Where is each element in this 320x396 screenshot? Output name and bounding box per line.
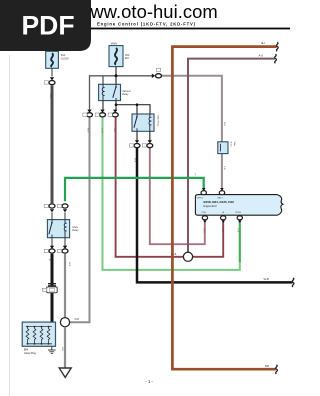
svg-text:G-R: G-R	[236, 229, 238, 233]
svg-text:W-B: W-B	[68, 262, 70, 267]
chassis ground	[59, 368, 71, 377]
wire: green stub at ECU VPRG	[239, 220, 241, 262]
svg-text:4H: 4H	[261, 41, 265, 45]
junction dots	[115, 103, 118, 106]
svg-text:GLOW: GLOW	[61, 57, 69, 60]
connector ovals top	[49, 204, 55, 208]
svg-text:BATT: BATT	[218, 196, 224, 199]
ECU bottom arrows	[203, 220, 207, 223]
relay R3	[47, 220, 69, 238]
svg-text:PDF: PDF	[22, 11, 75, 41]
svg-text:Glow Plug: Glow Plug	[24, 351, 36, 355]
wire: brown 4H/BR (right breaks, full height)	[172, 47, 276, 370]
wire: mauve A-S (right edge break down to splice J2)	[188, 59, 275, 252]
wire: mauve (relay R2 pin to ECU pin PRG)	[150, 148, 205, 244]
ECU bottom ovals	[202, 216, 207, 220]
svg-text:B158, B64, D125, D42: B158, B64, D125, D42	[204, 200, 235, 204]
svg-text:Engine ECU: Engine ECU	[204, 205, 217, 208]
break symbol bottom brown	[276, 365, 278, 374]
inline connector ticks on glow wire	[48, 283, 56, 284]
pin label boxes	[129, 144, 133, 147]
connector arrow right	[152, 74, 156, 78]
wire: glow feed black	[51, 254, 54, 327]
wire: gray ground return (connector A x90 down to splice J1)	[69, 118, 90, 323]
faint page margin line	[9, 55, 11, 396]
noise filter	[218, 142, 228, 154]
svg-text:EDU Relay: EDU Relay	[157, 116, 159, 128]
tag left of junction box	[42, 288, 46, 291]
glow plug assembly	[22, 322, 55, 346]
wire: splice J1 to ground	[64, 327, 66, 368]
pin label boxes	[44, 204, 48, 207]
svg-text:EFI: EFI	[125, 57, 129, 60]
svg-text:A-B: A-B	[173, 253, 177, 256]
header rule	[78, 28, 290, 30]
ground under glow plug	[48, 346, 56, 353]
arrows	[50, 246, 54, 249]
arrows below ovals	[50, 209, 54, 212]
wire: branch to relay R1 coil	[102, 76, 104, 85]
inline junction box	[47, 287, 58, 293]
svg-text:R-W: R-W	[202, 229, 204, 233]
svg-text:Relay: Relay	[72, 229, 79, 232]
svg-text:W-B: W-B	[264, 277, 270, 281]
svg-text:W-B: W-B	[133, 158, 135, 163]
svg-text:www.oto-hui.com: www.oto-hui.com	[76, 1, 218, 22]
break symbol mauve A-S	[275, 54, 277, 63]
wire: branch bus to relay R2	[116, 105, 150, 114]
connector arrow	[50, 77, 54, 80]
svg-text:W-B: W-B	[75, 319, 80, 321]
svg-text:Filter: Filter	[233, 142, 236, 147]
wire: stub fuse F1 to connector	[51, 68, 53, 76]
svg-text:A-S: A-S	[259, 53, 264, 57]
connector oval (52,82.3)	[49, 81, 55, 85]
svg-text:B-R: B-R	[223, 122, 225, 126]
op-amp ECU box	[195, 195, 283, 216]
ECU top ovals	[201, 191, 206, 195]
wire: green control (relay R3 coil to ECU top pin)	[65, 178, 204, 201]
svg-text:VPRG: VPRG	[235, 212, 241, 214]
wire: R1 pins down	[102, 101, 104, 111]
junction dot	[115, 74, 118, 77]
svg-text:5-B: 5-B	[223, 166, 225, 170]
svg-text:W-B: W-B	[86, 128, 88, 133]
pin label box	[156, 68, 160, 71]
connector ovals row y114.6	[87, 113, 93, 117]
svg-text:Noise: Noise	[230, 142, 232, 148]
svg-text:Relay: Relay	[122, 93, 129, 96]
svg-text:MAIN: MAIN	[111, 42, 117, 45]
svg-text:BR: BR	[265, 364, 269, 368]
svg-text:R-B: R-B	[113, 128, 115, 132]
stubs below relay	[51, 238, 53, 248]
break symbol black W-B	[292, 278, 294, 287]
connector arrows	[135, 140, 139, 143]
pin label boxes	[83, 113, 87, 116]
splice J1	[60, 318, 69, 327]
wire: light green (connector B x103 to ECU pin VPRG)	[103, 118, 240, 270]
svg-text:PRG: PRG	[202, 212, 207, 214]
wire: relay R3 coil to splice	[64, 254, 66, 318]
svg-text:W-B: W-B	[49, 94, 51, 99]
splice J2	[183, 252, 192, 261]
wire: taupe BATT (connector D to ECU top pin BATT)	[162, 76, 222, 191]
svg-text:Engine Control (1KD-FTV, 2KD-F: Engine Control (1KD-FTV, 2KD-FTV)	[97, 22, 196, 27]
relay R2	[132, 114, 154, 131]
PDF badge	[0, 0, 91, 51]
fuse F1 GLOW	[46, 51, 59, 68]
svg-text:W-B: W-B	[61, 347, 63, 352]
pin label box	[44, 81, 48, 84]
ECU top connector arrows	[202, 188, 206, 191]
wire: thick dark gray feed	[51, 85, 54, 203]
wire: stub fuse F2 down	[115, 67, 117, 85]
fuse F2 MAIN	[109, 46, 123, 67]
break symbol top brown	[276, 42, 278, 51]
svg-text:- 1 -: - 1 -	[146, 379, 154, 384]
wire: bus y=75.8	[90, 76, 153, 111]
stubs into relay	[51, 212, 53, 219]
wire: R2 pins down	[136, 131, 138, 141]
relay R1	[99, 84, 121, 100]
connector ovals row y145.5	[134, 144, 140, 148]
connector oval D (158.5,75.8)	[156, 74, 162, 78]
wire: dark red (connector C x115.6 to ECU pin +B)	[116, 118, 224, 257]
connector arrows above row y114.6	[87, 110, 91, 113]
pin label boxes	[44, 249, 48, 252]
connector ovals bottom	[49, 249, 55, 253]
wire: black W-B (relay R2 pin to right edge break)	[137, 148, 293, 283]
svg-text:OPRG: OPRG	[197, 197, 204, 199]
